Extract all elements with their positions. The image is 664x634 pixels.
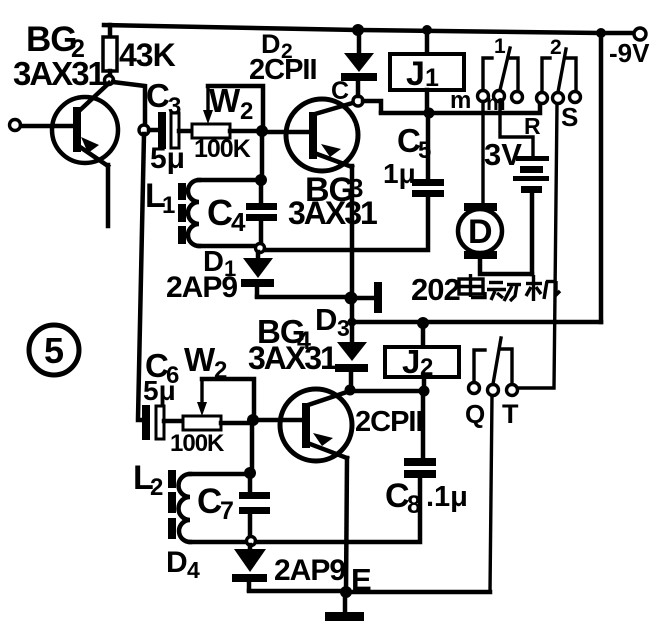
svg-text:D: D (166, 546, 188, 579)
inductor L1 (145, 177, 257, 246)
svg-text:100K: 100K (194, 135, 251, 163)
label motor chinese 电动机 (459, 274, 560, 301)
svg-text:3: 3 (337, 315, 350, 341)
svg-text:2CPII: 2CPII (355, 406, 423, 438)
svg-text:4: 4 (231, 207, 246, 237)
wire input node down to C6 (138, 134, 144, 420)
node BG3 collector (353, 96, 363, 106)
svg-text:C: C (331, 77, 349, 105)
svg-text:2CPII: 2CPII (249, 54, 317, 86)
wire contact to battery R (500, 102, 533, 156)
terminal bar stub (356, 296, 374, 301)
capacitor C5 1u (383, 113, 444, 197)
node tank bottom (256, 244, 265, 253)
svg-text:BG: BG (26, 20, 77, 59)
terminal -9V (634, 28, 646, 40)
svg-text:D: D (468, 213, 493, 251)
svg-text:3AX31: 3AX31 (288, 195, 377, 231)
wire pot node down to tank 2 (250, 424, 255, 470)
node E junction (340, 586, 352, 598)
wire 43K node to C3 node (113, 82, 145, 125)
wire base feed BG4 (253, 418, 302, 423)
wire top supply rail (104, 25, 631, 33)
inductor L2 (133, 459, 247, 542)
capacitor C7 (197, 476, 270, 537)
transistor BG4 3AX31 (248, 313, 423, 592)
transistor BG2 3AX31 (13, 20, 118, 226)
node pot/base junction (256, 125, 268, 137)
svg-text:W: W (184, 341, 216, 378)
svg-text:D: D (315, 302, 337, 337)
svg-text:2AP9: 2AP9 (274, 554, 345, 587)
terminal input (10, 120, 21, 131)
svg-text:C: C (385, 477, 410, 515)
svg-text:1: 1 (494, 35, 506, 58)
svg-text:8: 8 (407, 491, 421, 519)
transistor BG3 3AX31 (286, 77, 377, 296)
potentiometer W2 100K (top) (192, 82, 263, 163)
svg-text:.1μ: .1μ (426, 481, 468, 513)
wire contact m to motor (481, 102, 484, 203)
wire Q/T middle contact to E line (490, 396, 492, 592)
wire collector junction to J2 bottom (350, 389, 424, 394)
node top rail dot at right bend (596, 28, 606, 38)
svg-text:202: 202 (411, 272, 460, 307)
node J2 bottom junction (419, 386, 430, 397)
wire pot node down to tank (260, 134, 265, 178)
svg-text:S: S (561, 102, 578, 132)
svg-text:C: C (197, 482, 222, 521)
resistor 43K (103, 25, 176, 85)
svg-text:5μ: 5μ (150, 142, 185, 175)
svg-text:1: 1 (162, 192, 175, 219)
svg-text:5: 5 (418, 137, 431, 164)
svg-text:m: m (450, 87, 471, 114)
svg-text:4: 4 (187, 557, 200, 583)
diode D4 2AP9 (166, 545, 345, 591)
svg-text:1: 1 (425, 64, 439, 92)
svg-text:T: T (502, 399, 519, 429)
node top rail dot over D2 (352, 24, 364, 36)
battery 3V (484, 137, 549, 274)
svg-text:C: C (207, 192, 233, 233)
node lower rail left (348, 318, 357, 327)
relay contact group 2 (537, 36, 581, 132)
svg-text:5: 5 (44, 330, 64, 371)
capacitor C4 (207, 183, 277, 244)
wire tank2 bottom to C8 bottom (256, 478, 420, 542)
relay contact group 1 (450, 35, 523, 115)
wire tank bottom to C5 bottom (265, 197, 428, 250)
svg-text:2: 2 (420, 354, 433, 381)
svg-text:2: 2 (240, 98, 253, 125)
svg-text:43K: 43K (119, 37, 176, 73)
potentiometer W2 100K (bottom) (170, 341, 254, 457)
svg-text:2: 2 (150, 474, 163, 501)
node top rail dot over J1 (422, 25, 432, 35)
diode D2 2CPII (249, 29, 377, 96)
junction below J1 (424, 108, 435, 119)
node lower rail J2 tap (417, 317, 429, 329)
diode D3 2CPII (315, 298, 368, 388)
svg-text:J: J (402, 343, 420, 380)
svg-text:-9V: -9V (609, 38, 650, 68)
junction emitter BG3 / D1 (345, 292, 358, 305)
svg-text:C: C (146, 77, 170, 114)
svg-text:m: m (486, 90, 506, 115)
wire -9V rail bottom to lower section (352, 320, 601, 325)
svg-text:J: J (406, 55, 425, 93)
capacitor C6 5u (142, 347, 183, 440)
svg-text:R: R (524, 113, 541, 139)
figure number 5 (29, 325, 79, 375)
svg-text:3AX31: 3AX31 (13, 55, 106, 92)
relay contacts Q T (465, 338, 519, 429)
relay coil J1 (390, 31, 464, 110)
node tank top (255, 174, 267, 186)
diode D1 2AP9 (166, 246, 351, 304)
svg-text:3: 3 (168, 93, 181, 120)
node BG4 collector junction (345, 385, 356, 396)
wire E to Q/T (346, 590, 490, 595)
node tank2 top (244, 467, 256, 479)
svg-text:3AX31: 3AX31 (248, 340, 337, 376)
wire collector to contact rail (363, 101, 381, 112)
svg-text:100K: 100K (170, 430, 225, 457)
capacitor C3 5u (146, 77, 192, 175)
node C3 input (139, 125, 149, 135)
svg-text:3V: 3V (484, 137, 522, 172)
node tank2 bottom (247, 537, 256, 546)
wire base feed BG3 (262, 130, 309, 135)
svg-text:5μ: 5μ (143, 375, 176, 406)
motor D 202 (411, 203, 532, 307)
svg-text:2: 2 (214, 357, 227, 384)
node pot/base junction bottom (247, 414, 259, 426)
wire group2 middle down to T contact (518, 104, 557, 388)
svg-text:W: W (209, 82, 241, 119)
wire right rail (599, 33, 604, 322)
capacitor C8 .1u (385, 393, 468, 519)
svg-text:2AP9: 2AP9 (166, 271, 237, 304)
svg-text:1μ: 1μ (383, 158, 416, 189)
svg-text:7: 7 (220, 497, 234, 525)
relay coil J2 (385, 325, 459, 388)
svg-text:Q: Q (465, 399, 485, 429)
svg-text:2: 2 (550, 36, 562, 59)
ground (343, 594, 348, 612)
